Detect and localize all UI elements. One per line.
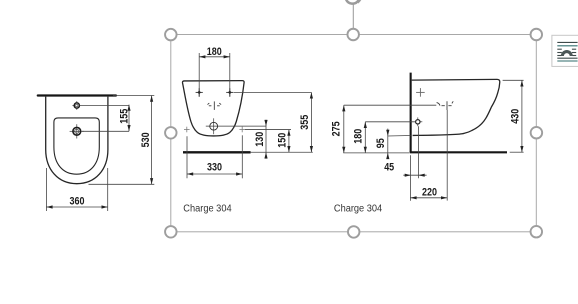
selection handle bottom-right xyxy=(531,226,543,238)
dimension 360 extension lines xyxy=(46,168,107,211)
fixing hole (side) xyxy=(416,117,423,126)
label Charge 304 (side) xyxy=(334,204,383,215)
220 right extension line xyxy=(446,110,448,201)
selection handle bottom-left xyxy=(165,226,177,238)
svg-text:180: 180 xyxy=(207,46,222,58)
gray measure cross right (plan) xyxy=(239,127,245,133)
wall line xyxy=(410,73,412,153)
selection handle top-left xyxy=(165,29,177,41)
floor reference line right of bar xyxy=(251,151,313,153)
layout options button xyxy=(552,35,578,66)
dimension 180 extension lines xyxy=(199,53,230,97)
rotate handle icon (clipped at top) xyxy=(346,0,361,4)
front view inner bowl xyxy=(54,118,99,174)
front view tap hole xyxy=(72,101,79,110)
dimension 360 xyxy=(46,195,107,208)
svg-text:530: 530 xyxy=(140,132,152,147)
selection handle top-right xyxy=(531,29,543,41)
svg-text:220: 220 xyxy=(422,186,437,198)
supply cross (side) xyxy=(416,88,425,97)
svg-text:430: 430 xyxy=(509,109,521,124)
hidden tap hole marker (side) xyxy=(437,101,454,110)
275 reference line to tap hole xyxy=(344,104,437,106)
hidden tap hole marker (plan) xyxy=(208,101,222,110)
front view body outline xyxy=(46,97,108,184)
svg-text:355: 355 xyxy=(299,115,311,130)
label Charge 304 (plan) xyxy=(183,204,232,215)
bowl bottom extension line xyxy=(89,183,155,185)
dimension 355 xyxy=(299,92,313,152)
rotate handle stem xyxy=(352,4,354,29)
extension line cross to 150 xyxy=(245,129,291,131)
dimension 330 xyxy=(187,161,242,175)
top rim extension line xyxy=(113,95,154,97)
svg-text:155: 155 xyxy=(119,109,131,124)
svg-text:130: 130 xyxy=(254,132,266,147)
front view drain crosshair xyxy=(70,124,84,138)
220 left extension line xyxy=(409,155,411,201)
extension line from drain xyxy=(82,130,129,132)
dimension 180 (side) xyxy=(353,122,367,153)
dimension 220 xyxy=(410,186,447,199)
floor reference line left xyxy=(343,152,409,154)
bottom edge extension line (side) xyxy=(388,135,411,138)
430 top reference line xyxy=(503,79,524,81)
svg-text:360: 360 xyxy=(70,195,85,207)
fixing hole extension line down xyxy=(418,126,420,178)
side body outline xyxy=(412,79,500,135)
selection handle left-mid xyxy=(165,127,177,139)
selection handle right-mid xyxy=(531,127,543,139)
dimension 430 xyxy=(509,80,523,152)
floor reference line right xyxy=(510,151,524,153)
drain crosshair (plan) xyxy=(206,118,266,134)
svg-text:330: 330 xyxy=(207,161,222,173)
dimension 45 xyxy=(384,161,426,176)
floor bar xyxy=(410,151,507,153)
selection handle top-mid xyxy=(347,29,359,41)
svg-text:180: 180 xyxy=(353,129,365,144)
gray measure cross left (plan) xyxy=(184,127,190,133)
dimension 130 xyxy=(254,120,268,159)
svg-text:Charge 304: Charge 304 xyxy=(183,204,232,215)
selection handle bottom-mid xyxy=(348,226,360,238)
fixing hole left (plan) xyxy=(196,88,203,96)
extension line from tap hole xyxy=(80,104,129,106)
svg-text:150: 150 xyxy=(276,133,288,148)
selection border rectangle xyxy=(171,35,537,232)
svg-text:275: 275 xyxy=(331,121,343,136)
svg-text:45: 45 xyxy=(384,161,394,173)
svg-text:Charge 304: Charge 304 xyxy=(334,204,383,215)
fixing hole right (plan) xyxy=(226,88,233,96)
dimension 530 xyxy=(140,96,153,185)
180 reference line (side) xyxy=(365,121,415,123)
extension line holes to 355 xyxy=(234,91,312,93)
dimension 180 (plan) xyxy=(199,46,230,58)
dimension 95 xyxy=(375,129,390,160)
dimension 330 extension lines xyxy=(187,135,242,178)
svg-text:95: 95 xyxy=(375,138,387,148)
plan view body outline xyxy=(182,81,244,136)
dimension 275 xyxy=(331,105,346,153)
front view top rim bar xyxy=(38,94,116,96)
plan wall bar xyxy=(183,151,251,153)
dimension 150 xyxy=(276,130,290,153)
dimension 155 xyxy=(119,105,131,132)
